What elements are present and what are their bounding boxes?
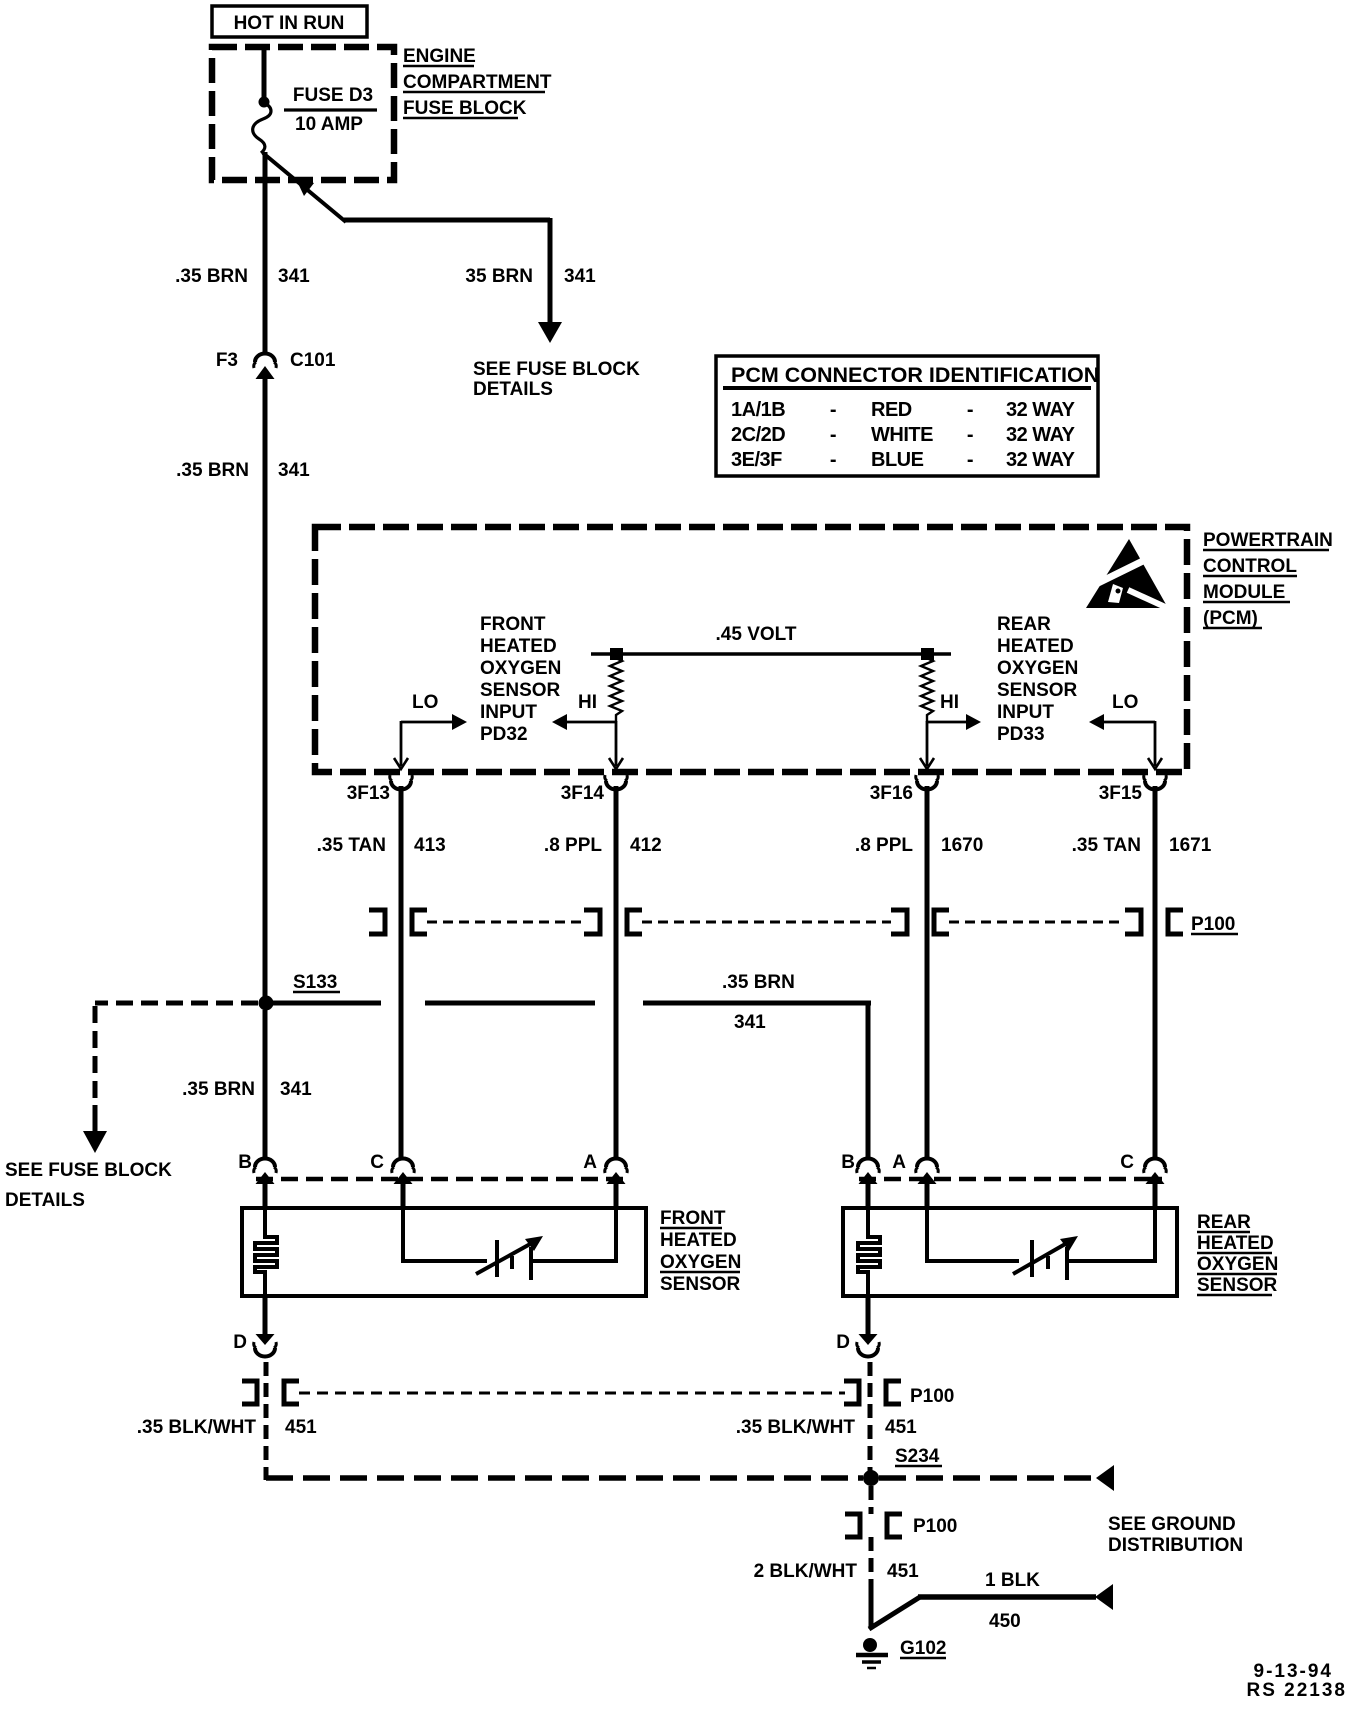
rear heater element	[858, 1208, 880, 1296]
arrowhead on diagonal at fuse box border	[296, 179, 314, 196]
wire: S133 down to front sensor B	[263, 1010, 268, 1158]
svg-text:-: -	[967, 424, 973, 446]
wire: rear HI arrow	[927, 692, 981, 766]
node: left resistor junction	[610, 648, 623, 660]
wires: front pins into box	[265, 1182, 616, 1210]
svg-text:(PCM): (PCM)	[1203, 608, 1258, 629]
svg-text:1671: 1671	[1169, 835, 1212, 856]
ESD warning symbol	[1086, 539, 1174, 611]
svg-text:PCM CONNECTOR IDENTIFICATION: PCM CONNECTOR IDENTIFICATION	[731, 363, 1099, 387]
svg-text:DETAILS: DETAILS	[5, 1190, 85, 1211]
svg-text:P100: P100	[1191, 914, 1235, 935]
svg-text:SEE FUSE BLOCK: SEE FUSE BLOCK	[5, 1160, 172, 1181]
svg-text:G102: G102	[900, 1638, 946, 1659]
svg-text:FRONT: FRONT	[660, 1208, 726, 1229]
svg-text:SENSOR: SENSOR	[480, 680, 561, 701]
wire: rear heater to pin D	[866, 1296, 871, 1335]
connector P100 pass-through row (upper)	[369, 910, 1238, 935]
wire: front LO arrow	[401, 692, 467, 766]
wire: 3F16 to rear sensor A (1670 PPL)	[925, 786, 930, 1158]
front sensor pin C connector (cup + arrow)	[370, 1152, 414, 1184]
label: SEE FUSE BLOCK DETAILS (right)	[473, 359, 640, 400]
rear pin D connector (arrow + cup)	[836, 1332, 879, 1357]
svg-text:RS 22138: RS 22138	[1246, 1680, 1347, 1701]
rear sensor pin B connector (cup + arrow)	[841, 1152, 879, 1184]
svg-text:9-13-94: 9-13-94	[1254, 1661, 1334, 1682]
svg-text:1670: 1670	[941, 835, 983, 856]
svg-text:450: 450	[989, 1611, 1021, 1632]
rear sensor element (variable cell with arrow)	[927, 1208, 1155, 1280]
rear sensor pin C connector (cup + arrow)	[1120, 1152, 1166, 1184]
svg-text:OXYGEN: OXYGEN	[1197, 1254, 1278, 1275]
label: engine compartment fuse block	[403, 46, 552, 119]
svg-text:1A/1B: 1A/1B	[731, 399, 785, 421]
wire: front D dashed down to splice line (451 BLK/WHT)	[264, 1362, 269, 1480]
wire: diagonal to 1 BLK branch	[869, 1597, 920, 1629]
wire: 3F13 to front sensor C (413 TAN)	[399, 786, 404, 1158]
wire: S234 dashed to ground distribution (right)	[879, 1465, 1114, 1491]
svg-text:2C/2D: 2C/2D	[731, 424, 785, 446]
svg-text:.8 PPL: .8 PPL	[855, 835, 913, 856]
label: date and drawing number	[1246, 1661, 1347, 1701]
svg-text:.35 BRN: .35 BRN	[182, 1079, 255, 1100]
wire from box top to fuse	[262, 47, 267, 101]
wire: fuse output down (341 BRN)	[263, 152, 268, 352]
svg-text:COMPARTMENT: COMPARTMENT	[403, 72, 552, 93]
svg-text:3F16: 3F16	[870, 783, 913, 804]
svg-text:-: -	[830, 399, 836, 421]
label: F3 / C101	[216, 350, 336, 371]
svg-text:S234: S234	[895, 1446, 940, 1467]
svg-text:SEE GROUND: SEE GROUND	[1108, 1514, 1236, 1535]
svg-text:F3: F3	[216, 350, 238, 371]
svg-text:B: B	[238, 1152, 252, 1173]
pin 3F15 thin arrow at PCM border	[1148, 758, 1162, 769]
connector P100 rear D (brackets)	[844, 1381, 954, 1407]
pin 3F16 thin arrow at PCM border	[920, 758, 934, 769]
svg-text:REAR: REAR	[1197, 1212, 1251, 1233]
wires: rear pins into box	[868, 1182, 1155, 1210]
svg-text:HOT IN RUN: HOT IN RUN	[234, 13, 345, 34]
arrow: branch down arrow	[538, 322, 562, 343]
wire: S133 to rear sensor B (341 BRN) horizontal	[272, 1001, 871, 1006]
connector C101 male arrow	[256, 366, 275, 379]
svg-text:451: 451	[887, 1561, 919, 1582]
label: front heated oxygen sensor	[660, 1208, 741, 1295]
wire: rear LO arrow	[1089, 692, 1155, 766]
wire: diagonal branch from fuse	[263, 153, 346, 222]
front heated oxygen sensor box	[242, 1208, 646, 1296]
label: SEE GROUND DISTRIBUTION	[1108, 1514, 1243, 1556]
svg-text:B: B	[841, 1152, 855, 1173]
svg-text:341: 341	[734, 1012, 766, 1033]
label: rear heated oxygen sensor input PD33	[997, 614, 1078, 745]
svg-text:P100: P100	[913, 1516, 957, 1537]
svg-text:.45 VOLT: .45 VOLT	[716, 624, 797, 645]
wire: S133 dashed branch to fuse block details (left)	[83, 1003, 258, 1153]
svg-text:FUSE D3: FUSE D3	[293, 85, 373, 106]
label: 1 BLK / 450	[985, 1570, 1040, 1632]
svg-text:.35 BLK/WHT: .35 BLK/WHT	[137, 1417, 257, 1438]
svg-text:MODULE: MODULE	[1203, 582, 1285, 603]
pin 3F13 thin arrow at PCM border	[394, 758, 408, 769]
pin 3F14 thin arrow at PCM border	[609, 758, 623, 769]
PCM connector identification table	[716, 356, 1099, 476]
svg-text:.35 BRN: .35 BRN	[175, 266, 248, 287]
svg-text:P100: P100	[910, 1386, 954, 1407]
svg-text:D: D	[233, 1332, 247, 1353]
svg-text:HEATED: HEATED	[660, 1230, 737, 1251]
ground G102 symbol	[856, 1638, 888, 1668]
label: rear heated oxygen sensor	[1197, 1212, 1278, 1296]
label: .8 PPL 412	[544, 835, 662, 856]
svg-text:32 WAY: 32 WAY	[1006, 399, 1076, 421]
label: .35 BLK/WHT 451 (rear)	[736, 1417, 917, 1438]
label: 35 BRN 341 (branch)	[465, 266, 596, 287]
svg-text:.35 TAN: .35 TAN	[317, 835, 386, 856]
svg-text:LO: LO	[1112, 692, 1138, 713]
svg-text:C101: C101	[290, 350, 336, 371]
svg-text:SENSOR: SENSOR	[1197, 1275, 1278, 1296]
node: right resistor junction	[921, 648, 934, 660]
wire: .45 volt reference line	[591, 652, 951, 656]
svg-text:INPUT: INPUT	[480, 702, 537, 723]
connector P100 ground leg (brackets)	[845, 1514, 957, 1537]
pin 3F16 female cup	[870, 775, 939, 804]
engine compartment fuse block (dashed box)	[212, 47, 394, 180]
svg-text:REAR: REAR	[997, 614, 1051, 635]
svg-text:32 WAY: 32 WAY	[1006, 424, 1076, 446]
fuse D3 symbol (S-curve element)	[253, 103, 271, 153]
splice S234	[863, 1446, 942, 1486]
wire: rear B drop from S133 line	[866, 1003, 871, 1158]
svg-text:CONTROL: CONTROL	[1203, 556, 1297, 577]
label: FUSE D3 / 10 AMP	[284, 85, 377, 135]
label: .35 BRN 341 (upper segment)	[175, 266, 310, 287]
svg-text:DETAILS: DETAILS	[473, 379, 553, 400]
svg-text:35 BRN: 35 BRN	[465, 266, 533, 287]
connector C101 female cup	[255, 354, 275, 363]
svg-text:WHITE: WHITE	[871, 424, 933, 446]
wire: S234 down dashed	[869, 1486, 874, 1514]
svg-text:.8 PPL: .8 PPL	[544, 835, 602, 856]
svg-text:3F13: 3F13	[347, 783, 390, 804]
svg-text:LO: LO	[412, 692, 438, 713]
label: SEE FUSE BLOCK DETAILS (left)	[5, 1160, 172, 1211]
svg-text:.35 BRN: .35 BRN	[176, 460, 249, 481]
svg-text:3F15: 3F15	[1099, 783, 1143, 804]
svg-text:32 WAY: 32 WAY	[1006, 449, 1076, 471]
svg-text:341: 341	[280, 1079, 312, 1100]
rear heated oxygen sensor box	[843, 1208, 1177, 1296]
front heater element	[255, 1208, 277, 1296]
svg-text:FUSE BLOCK: FUSE BLOCK	[403, 98, 527, 119]
svg-text:-: -	[830, 424, 836, 446]
svg-text:D: D	[836, 1332, 850, 1353]
svg-text:POWERTRAIN: POWERTRAIN	[1203, 530, 1333, 551]
label: powertrain control module (PCM)	[1203, 530, 1333, 629]
wire: front HI arrow	[552, 692, 616, 766]
label: .35 BRN 341 (S133 to front B)	[182, 1079, 312, 1100]
front sensor pin A connector (cup + arrow)	[583, 1152, 627, 1184]
node: fuse input junction	[259, 97, 270, 108]
svg-text:.35 TAN: .35 TAN	[1072, 835, 1141, 856]
wire: branch horizontal to right	[344, 218, 550, 223]
resistor: rear bias (coil)	[921, 658, 933, 722]
label: .35 BLK/WHT 451 (front)	[137, 1417, 317, 1438]
svg-text:3F14: 3F14	[561, 783, 605, 804]
splice S133	[259, 972, 341, 1011]
svg-text:10 AMP: 10 AMP	[295, 114, 363, 135]
wire: branch vertical down	[548, 218, 553, 326]
powertrain control module PCM (dashed box)	[315, 527, 1187, 772]
svg-text:BLUE: BLUE	[871, 449, 924, 471]
svg-text:DISTRIBUTION: DISTRIBUTION	[1108, 1535, 1243, 1556]
svg-text:341: 341	[564, 266, 596, 287]
svg-text:SENSOR: SENSOR	[997, 680, 1078, 701]
wire: P100 dashed tie to rear D	[299, 1392, 845, 1395]
front sensor element (variable cell with arrow)	[403, 1208, 616, 1280]
svg-text:OXYGEN: OXYGEN	[660, 1252, 741, 1273]
svg-text:341: 341	[278, 266, 310, 287]
wire: rear D dashed down to S234 (451 BLK/WHT)	[868, 1362, 873, 1471]
svg-text:2 BLK/WHT: 2 BLK/WHT	[754, 1561, 858, 1582]
svg-text:HI: HI	[578, 692, 597, 713]
pin 3F14 female cup	[561, 775, 628, 804]
wire: front D to S234 dashed horizontal	[266, 1475, 863, 1481]
svg-text:341: 341	[278, 460, 310, 481]
svg-text:S133: S133	[293, 972, 337, 993]
svg-text:HI: HI	[940, 692, 959, 713]
svg-text:PD33: PD33	[997, 724, 1045, 745]
label: G102	[900, 1638, 946, 1659]
label: front heated oxygen sensor input PD32	[480, 614, 561, 745]
svg-text:413: 413	[414, 835, 446, 856]
svg-text:451: 451	[885, 1417, 917, 1438]
wire: P100 to ground wire dashed	[869, 1537, 874, 1585]
svg-text:-: -	[830, 449, 836, 471]
svg-text:HEATED: HEATED	[1197, 1233, 1274, 1254]
label: .35 BRN 341 (to rear sensor)	[722, 972, 795, 1033]
wire: front heater to pin D	[263, 1296, 268, 1335]
label: .35 TAN 1671	[1072, 835, 1212, 856]
svg-text:INPUT: INPUT	[997, 702, 1054, 723]
label: .8 PPL 1670	[855, 835, 983, 856]
svg-text:.35 BRN: .35 BRN	[722, 972, 795, 993]
svg-text:HEATED: HEATED	[997, 636, 1074, 657]
svg-text:A: A	[583, 1152, 597, 1173]
svg-text:.35 BLK/WHT: .35 BLK/WHT	[736, 1417, 856, 1438]
wire: front connector dashed tie line	[256, 1177, 624, 1182]
svg-text:C: C	[370, 1152, 384, 1173]
svg-text:OXYGEN: OXYGEN	[997, 658, 1078, 679]
label: .35 BRN 341 (second segment)	[176, 460, 310, 481]
connector P100 front D (brackets)	[242, 1381, 299, 1404]
svg-text:HEATED: HEATED	[480, 636, 557, 657]
wire: 3F14 to front sensor A (412 PPL)	[614, 786, 619, 1158]
svg-text:PD32: PD32	[480, 724, 528, 745]
svg-text:1 BLK: 1 BLK	[985, 1570, 1040, 1591]
front pin D connector (arrow + cup)	[233, 1332, 276, 1357]
HOT IN RUN header box	[212, 6, 367, 37]
front sensor pin B connector (cup + arrow)	[238, 1152, 276, 1184]
svg-text:C: C	[1120, 1152, 1134, 1173]
label: 2 BLK/WHT 451	[754, 1561, 920, 1582]
svg-text:OXYGEN: OXYGEN	[480, 658, 561, 679]
rear sensor pin A connector (cup + arrow)	[892, 1152, 938, 1184]
pin 3F13 female cup	[347, 775, 413, 804]
svg-text:FRONT: FRONT	[480, 614, 546, 635]
svg-text:SENSOR: SENSOR	[660, 1274, 741, 1295]
svg-text:SEE FUSE BLOCK: SEE FUSE BLOCK	[473, 359, 640, 380]
svg-text:RED: RED	[871, 399, 912, 421]
svg-text:ENGINE: ENGINE	[403, 46, 476, 67]
svg-text:-: -	[967, 399, 973, 421]
wire: solid drop to ground	[869, 1585, 874, 1629]
pin 3F15 female cup	[1099, 775, 1167, 804]
svg-text:A: A	[892, 1152, 906, 1173]
svg-text:412: 412	[630, 835, 662, 856]
wire: C101 down to S133 (341 BRN)	[263, 377, 268, 1003]
resistor: front bias (coil)	[610, 658, 622, 722]
wire: 1 BLK 450 to ground distribution	[918, 1584, 1113, 1610]
svg-text:3E/3F: 3E/3F	[731, 449, 782, 471]
label: .35 TAN 413	[317, 835, 446, 856]
wire: rear connector dashed tie line	[859, 1177, 1162, 1182]
wire: 3F15 to rear sensor C (1671 TAN)	[1153, 786, 1158, 1158]
svg-text:-: -	[967, 449, 973, 471]
svg-text:451: 451	[285, 1417, 317, 1438]
